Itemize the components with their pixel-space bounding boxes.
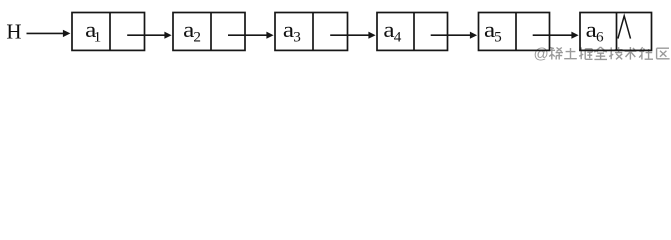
svg-text:5: 5 <box>494 28 502 45</box>
svg-text:3: 3 <box>293 28 301 45</box>
svg-text:@: @ <box>534 45 549 62</box>
svg-text:2: 2 <box>193 28 201 45</box>
svg-text:4: 4 <box>394 28 402 45</box>
svg-text:H: H <box>6 20 21 44</box>
svg-text:6: 6 <box>596 28 604 45</box>
svg-text:1: 1 <box>94 28 102 45</box>
